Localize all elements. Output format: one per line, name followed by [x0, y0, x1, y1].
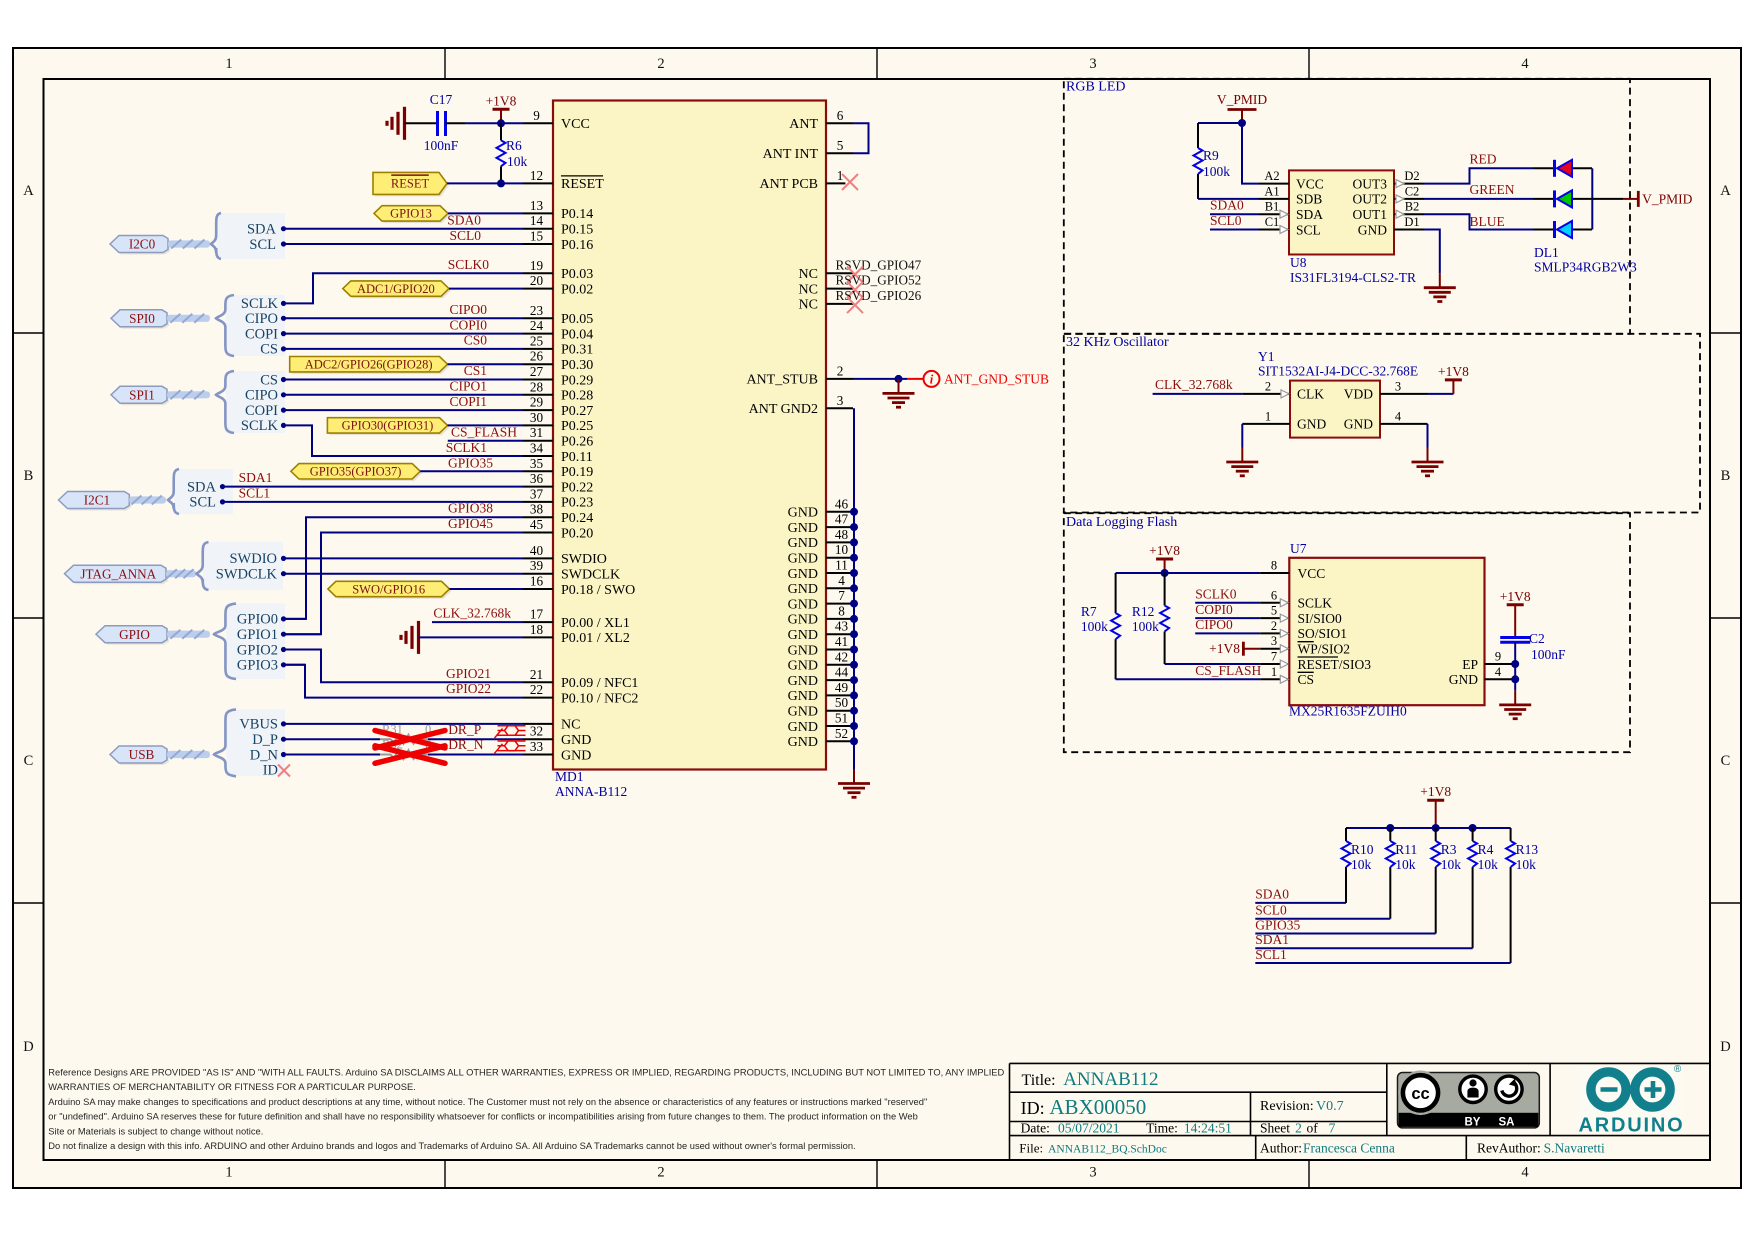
svg-text:SCL: SCL: [249, 237, 276, 253]
svg-text:SCL: SCL: [189, 495, 216, 511]
svg-text:GND: GND: [788, 506, 818, 521]
wire GPIO38 elbow to P0.24: [284, 517, 523, 619]
wire I2C1.SCL: [223, 501, 523, 503]
svg-text:D_P: D_P: [252, 732, 278, 748]
power +1V8 (U7 VCC): [1164, 559, 1166, 573]
pin 13 P0.14 (MD1 left): [523, 198, 593, 222]
svg-text:GND: GND: [788, 597, 818, 612]
svg-text:ANT GND2: ANT GND2: [749, 402, 818, 417]
pin 4 GND (Y1): [1344, 409, 1428, 431]
pin 4 GND (U7 right): [1449, 665, 1514, 687]
svg-text:35: 35: [530, 456, 544, 471]
junction node VCC/R6: [497, 119, 505, 127]
harness signal SPI1.CIPO: [245, 388, 286, 404]
wire GPIO0 stub: [284, 618, 306, 620]
wire V_PMID down to U8 VCC: [1242, 123, 1259, 184]
wire SCL0 (bank): [1255, 918, 1390, 920]
svg-text:16: 16: [530, 574, 544, 589]
power V_PMID (right, sideways): [1623, 191, 1692, 207]
no-ERC directive ANT_GND_STUB: [907, 371, 940, 387]
wire +1V8 to U7 VCC: [1116, 572, 1261, 574]
pin 17 P0.00 / XL1 (MD1 left): [523, 607, 630, 631]
svg-text:SPI1: SPI1: [129, 387, 155, 402]
svg-text:GND: GND: [788, 689, 818, 704]
svg-text:GND: GND: [788, 659, 818, 674]
svg-text:R11: R11: [1395, 842, 1417, 857]
svg-text:2: 2: [1265, 379, 1271, 393]
svg-text:SCLK1: SCLK1: [446, 440, 487, 455]
pin 2 ANT_STUB (MD1 right): [746, 363, 853, 387]
pin 15 P0.16 (MD1 left): [523, 229, 593, 253]
svg-text:21: 21: [530, 667, 543, 682]
svg-text:C: C: [1721, 753, 1731, 769]
svg-text:P0.10 / NFC2: P0.10 / NFC2: [561, 691, 638, 706]
svg-text:22: 22: [530, 682, 543, 697]
svg-text:50: 50: [835, 695, 849, 710]
pin 1 ANT PCB (MD1 right): [760, 168, 846, 192]
svg-text:GPIO21: GPIO21: [446, 666, 491, 681]
svg-text:4: 4: [1521, 1165, 1529, 1181]
svg-text:B1: B1: [1265, 200, 1280, 214]
svg-text:+1V8: +1V8: [1420, 784, 1451, 799]
wire CLK_32.768k to XL1: [432, 621, 523, 623]
svg-text:Arduino SA may make changes to: Arduino SA may make changes to specifica…: [48, 1097, 927, 1107]
svg-text:C17: C17: [430, 92, 453, 107]
svg-text:28: 28: [530, 379, 544, 394]
wire D_N: [284, 754, 380, 756]
svg-text:14: 14: [530, 213, 544, 228]
svg-text:33: 33: [530, 739, 544, 754]
svg-text:GPIO35: GPIO35: [1255, 917, 1300, 932]
svg-text:SCLK: SCLK: [1298, 596, 1333, 611]
pin 2 SO/SIO1 (U7 left): [1260, 619, 1347, 641]
svg-text:CLK_32.768k: CLK_32.768k: [1155, 377, 1233, 392]
wire GPIO30 to P0.25: [448, 424, 524, 426]
wire OUT2 to GREEN led: [1424, 198, 1533, 200]
junction U7 GND: [1511, 675, 1519, 683]
svg-text:SMLP34RGB2W3: SMLP34RGB2W3: [1534, 259, 1637, 274]
power +1V8 (U7 WP, sideways): [1209, 641, 1260, 656]
pin 14 P0.15 (MD1 left): [523, 213, 593, 237]
svg-text:MD1: MD1: [555, 769, 584, 784]
svg-text:4: 4: [838, 573, 845, 588]
pin NC NC (MD1 right): [799, 282, 853, 297]
svg-text:P0.01 / XL2: P0.01 / XL2: [561, 631, 630, 646]
svg-text:+1V8: +1V8: [1438, 364, 1469, 379]
ground (signal gnd) at C17: [403, 107, 406, 140]
wire VBUS to NC pin: [284, 723, 523, 725]
svg-text:P0.19: P0.19: [561, 465, 593, 480]
svg-text:GND: GND: [788, 613, 818, 628]
svg-text:VCC: VCC: [1298, 566, 1326, 581]
svg-text:ID:: ID:: [1021, 1098, 1045, 1118]
svg-text:SCL0: SCL0: [1255, 903, 1287, 918]
svg-text:R3: R3: [1441, 842, 1457, 857]
power V_PMID (RGB): [1217, 92, 1268, 123]
svg-text:P0.29: P0.29: [561, 373, 593, 388]
pin 23 P0.05 (MD1 left): [523, 303, 593, 327]
svg-text:cc: cc: [1411, 1085, 1429, 1103]
svg-text:6: 6: [1271, 588, 1277, 602]
svg-text:R12: R12: [1132, 604, 1155, 619]
svg-text:32: 32: [530, 724, 543, 739]
port GPIO13: [376, 208, 450, 223]
svg-text:V_PMID: V_PMID: [1642, 191, 1693, 206]
svg-text:or "undefined". Arduino SA res: or "undefined". Arduino SA reserves thes…: [48, 1112, 918, 1122]
wire COPI0 to U7: [1195, 617, 1260, 619]
harness signal SPI1.SCLK: [241, 418, 286, 434]
junction U7 EP: [1511, 660, 1519, 668]
svg-text:39: 39: [530, 558, 544, 573]
svg-text:GND: GND: [788, 735, 818, 750]
harness signal SPI0.COPI: [245, 326, 286, 342]
svg-text:7: 7: [1329, 1120, 1336, 1135]
wire GPIO3 stub: [284, 664, 305, 666]
not-fitted red cross over R32: [375, 746, 445, 764]
not-fitted red cross over R31: [375, 731, 445, 749]
svg-text:R4: R4: [1478, 842, 1494, 857]
svg-text:R7: R7: [1081, 604, 1097, 619]
pin 29 P0.27 (MD1 left): [523, 395, 593, 419]
svg-text:I2C0: I2C0: [129, 237, 156, 252]
svg-text:5: 5: [1271, 604, 1277, 618]
section box RGB LED: [1064, 79, 1630, 334]
wire gnd to XL2: [419, 636, 524, 638]
svg-text:ADC2/GPIO26(GPIO28): ADC2/GPIO26(GPIO28): [305, 358, 433, 372]
svg-text:D_N: D_N: [250, 747, 279, 763]
wire SDA1 (bank): [1255, 947, 1472, 949]
power +1V8 (Y1): [1452, 380, 1454, 394]
wire SPI0.CIPO: [284, 317, 523, 319]
svg-text:CIPO1: CIPO1: [449, 379, 487, 394]
pin 18 P0.01 / XL2 (MD1 left): [523, 622, 630, 646]
wire CIPO0 to U7: [1195, 632, 1260, 634]
harness signal SPI0.SCLK: [241, 296, 286, 312]
wire SWO/GPIO16 to P0.18: [450, 588, 524, 590]
svg-text:I2C1: I2C1: [84, 493, 110, 508]
pin B2 OUT1 (U8 right): [1353, 200, 1425, 222]
svg-text:6: 6: [837, 108, 844, 123]
net label RSVD_GPIO26: [836, 288, 922, 303]
svg-text:10k: 10k: [1395, 857, 1416, 872]
svg-text:GPIO30(GPIO31): GPIO30(GPIO31): [342, 419, 434, 433]
harness signal SPI1.CS: [260, 372, 286, 388]
pin 36 P0.22 (MD1 left): [523, 471, 593, 495]
svg-text:SDA: SDA: [247, 222, 277, 238]
wire SWDIO: [284, 557, 523, 559]
pin 33 GND (MD1 left): [523, 739, 591, 763]
svg-text:SCLK0: SCLK0: [1195, 587, 1237, 602]
svg-text:ANT_GND_STUB: ANT_GND_STUB: [944, 372, 1049, 387]
svg-text:i: i: [930, 373, 934, 387]
svg-text:BY: BY: [1465, 1117, 1481, 1129]
svg-text:2: 2: [1271, 619, 1277, 633]
pin 42 GND (MD1 right): [788, 649, 854, 673]
svg-text:1: 1: [1271, 665, 1277, 679]
svg-text:NC: NC: [799, 282, 818, 297]
wire ANT to ANT INT loop: [853, 123, 869, 153]
wire SPI1.CIPO: [284, 394, 523, 396]
svg-text:40: 40: [530, 543, 544, 558]
section box 32 KHz Oscillator: [1064, 334, 1700, 513]
junction node RESET: [497, 179, 505, 187]
svg-text:27: 27: [530, 364, 544, 379]
svg-text:GPIO22: GPIO22: [446, 681, 491, 696]
svg-text:COPI0: COPI0: [1195, 602, 1233, 617]
wire R12 to U7 RESET: [1165, 663, 1261, 665]
capacitor C2 100nF: [1500, 631, 1566, 662]
wire SPI1.SCLK elbow to P0.11: [284, 425, 523, 456]
svg-text:Title:: Title:: [1022, 1072, 1056, 1089]
svg-text:NC: NC: [799, 298, 818, 313]
svg-text:P0.05: P0.05: [561, 312, 593, 327]
svg-text:4: 4: [1395, 409, 1402, 423]
svg-text:7: 7: [838, 588, 845, 603]
svg-text:ADC1/GPIO20: ADC1/GPIO20: [357, 282, 435, 296]
svg-text:42: 42: [835, 649, 848, 664]
component U7 MX25R1635FZUIH0: [1289, 558, 1484, 705]
svg-text:P0.28: P0.28: [561, 389, 593, 404]
svg-text:U8: U8: [1290, 255, 1307, 270]
svg-text:R10: R10: [1351, 842, 1374, 857]
svg-text:C1: C1: [1265, 215, 1280, 229]
svg-text:P0.02: P0.02: [561, 282, 593, 297]
svg-text:9: 9: [533, 108, 540, 123]
svg-text:C2: C2: [1405, 184, 1420, 198]
svg-text:26: 26: [530, 349, 544, 364]
svg-text:19: 19: [530, 258, 544, 273]
wire R7/CS_FLASH to U7 CS: [1116, 678, 1261, 680]
differential pair directive DR_N: [495, 741, 526, 753]
svg-text:SDA: SDA: [187, 479, 217, 495]
svg-text:41: 41: [835, 634, 848, 649]
pin 1 GND (Y1): [1242, 409, 1326, 431]
component MD1 ANNA-B112 main IC body: [553, 101, 826, 770]
svg-text:B: B: [24, 468, 34, 484]
svg-text:RESET/SIO3: RESET/SIO3: [1298, 657, 1372, 672]
wire GPIO3 elbow to NFC2: [284, 665, 523, 698]
harness signal GPIO.GPIO1: [237, 627, 286, 643]
net label RSVD_GPIO52: [836, 273, 922, 288]
svg-text:100k: 100k: [1203, 164, 1230, 179]
resistor R7 100k: [1081, 573, 1120, 679]
power +1V8 (C2): [1514, 605, 1516, 638]
pin 3 WP/SIO2 (U7 left): [1260, 634, 1350, 656]
pin 46 GND (MD1 right): [788, 496, 854, 520]
svg-text:05/07/2021: 05/07/2021: [1058, 1120, 1120, 1135]
wire SPI0.SCLK elbow to P0.03: [284, 273, 523, 303]
svg-text:31: 31: [530, 425, 543, 440]
svg-text:NC: NC: [561, 718, 580, 733]
svg-text:5: 5: [837, 138, 844, 153]
pin 2 CLK (Y1): [1242, 379, 1324, 401]
wire C2 to EP/GND: [1514, 642, 1516, 690]
svg-text:51: 51: [835, 711, 848, 726]
harness signal SPI0.CIPO: [245, 311, 286, 327]
net label CLK_32.768k (Y1): [1155, 377, 1233, 392]
pin 16 P0.18 / SWO (MD1 left): [523, 574, 635, 598]
harness signal GPIO.GPIO3: [237, 658, 286, 674]
junction U7 VCC: [1161, 569, 1169, 577]
wire LED anode bus: [1591, 168, 1593, 229]
svg-text:CS: CS: [1298, 672, 1315, 687]
wire ANT_STUB: [853, 378, 907, 380]
pin 7 RESET/SIO3 (U7 left): [1260, 650, 1371, 672]
resistor R12 100k: [1132, 573, 1169, 664]
pin 27 P0.29 (MD1 left): [523, 364, 593, 388]
svg-text:GPIO3: GPIO3: [237, 658, 278, 674]
svg-text:29: 29: [530, 395, 544, 410]
pin 49 GND (MD1 right): [788, 680, 854, 704]
port GPIO35(GPIO37): [293, 466, 422, 481]
resistor R6 10k: [497, 123, 528, 183]
pin 44 GND (MD1 right): [788, 665, 854, 689]
svg-text:17: 17: [530, 607, 544, 622]
svg-text:OUT2: OUT2: [1353, 192, 1388, 207]
wire SPI0.CS: [284, 348, 523, 350]
svg-text:3: 3: [837, 393, 844, 408]
component U8 IS31FL3194-CLS2-TR: [1289, 170, 1394, 254]
svg-text:GND: GND: [561, 748, 591, 763]
svg-text:GND: GND: [788, 705, 818, 720]
svg-text:Sheet: Sheet: [1260, 1120, 1290, 1135]
junction R3 top: [1432, 824, 1440, 832]
pin NC NC (MD1 right): [799, 298, 853, 313]
svg-text:CS0: CS0: [464, 333, 488, 348]
svg-text:P0.09 / NFC1: P0.09 / NFC1: [561, 676, 638, 691]
no-connect cross at ANT PCB: [842, 174, 858, 190]
svg-text:P0.00 / XL1: P0.00 / XL1: [561, 616, 630, 631]
wire D_P: [284, 738, 380, 740]
resistor R13 10k: [1506, 828, 1538, 880]
pin 37 P0.23 (MD1 left): [523, 486, 593, 510]
svg-text:Date:: Date:: [1021, 1120, 1050, 1135]
svg-text:P0.14: P0.14: [561, 207, 593, 222]
svg-text:3: 3: [1395, 379, 1401, 393]
resistor R11 10k: [1386, 828, 1418, 880]
svg-text:GPIO: GPIO: [119, 627, 150, 642]
svg-text:23: 23: [530, 303, 544, 318]
ground at GND bus: [853, 769, 855, 784]
wire R3 lead: [1435, 880, 1437, 934]
no-connect cross at ID: [278, 765, 290, 777]
svg-text:SCLK: SCLK: [241, 296, 279, 312]
harness signal I2C0.SCL: [249, 237, 286, 253]
svg-text:P0.30: P0.30: [561, 358, 593, 373]
svg-text:GND: GND: [1297, 417, 1326, 432]
pin 26 P0.30 (MD1 left): [523, 349, 593, 373]
svg-text:ANT PCB: ANT PCB: [760, 177, 818, 192]
pin B1 SDA (U8 left): [1259, 200, 1323, 222]
svg-text:P0.26: P0.26: [561, 435, 593, 450]
wire GPIO2 elbow to NFC1: [284, 650, 523, 683]
svg-text:NC: NC: [799, 267, 818, 282]
svg-text:File:: File:: [1019, 1141, 1043, 1156]
svg-text:48: 48: [835, 527, 849, 542]
wire I2C1.SDA: [223, 486, 523, 488]
svg-text:20: 20: [530, 273, 544, 288]
pin 7 GND (MD1 right): [788, 588, 854, 612]
no-connect cross NC3: [847, 297, 863, 313]
svg-text:D1: D1: [1404, 215, 1419, 229]
CC BY-SA badge: [1398, 1071, 1540, 1129]
harness connector I2C1: [59, 469, 234, 514]
pin C2 OUT2 (U8 right): [1353, 184, 1425, 206]
wire GPIO2 stub: [284, 649, 321, 651]
pin A2 VCC (U8 left): [1259, 169, 1324, 191]
svg-text:V0.7: V0.7: [1316, 1099, 1344, 1114]
svg-text:COPI: COPI: [245, 326, 278, 342]
pin 28 P0.28 (MD1 left): [523, 379, 593, 403]
svg-text:P0.31: P0.31: [561, 343, 593, 358]
svg-text:SDB: SDB: [1296, 192, 1322, 207]
wire GPIO35 (bank): [1255, 933, 1435, 935]
pin D2 OUT3 (U8 right): [1353, 169, 1425, 191]
wire GPIO45 elbow to P0.20: [284, 533, 523, 635]
svg-text:52: 52: [835, 726, 848, 741]
svg-text:RED: RED: [1470, 152, 1497, 167]
harness signal SPI0.CS: [260, 342, 286, 358]
harness connector JTAG_ANNA: [65, 542, 284, 590]
harness signal I2C0.SDA: [247, 222, 286, 238]
svg-text:2: 2: [1295, 1120, 1302, 1135]
svg-text:VCC: VCC: [1296, 176, 1324, 191]
svg-text:SIT1532AI-J4-DCC-32.768E: SIT1532AI-J4-DCC-32.768E: [1258, 364, 1418, 379]
svg-text:ANNAB112_BQ.SchDoc: ANNAB112_BQ.SchDoc: [1048, 1144, 1167, 1156]
svg-text:3: 3: [1089, 1165, 1096, 1181]
pin 4 GND (MD1 right): [788, 573, 854, 597]
svg-text:SWDIO: SWDIO: [229, 551, 277, 567]
power +1V8 at VCC: [500, 109, 502, 123]
svg-text:P0.04: P0.04: [561, 327, 593, 342]
pin 9 VCC (MD1 left): [523, 108, 590, 132]
svg-text:GPIO1: GPIO1: [237, 627, 278, 643]
pin 50 GND (MD1 right): [788, 695, 854, 719]
svg-text:CLK_32.768k: CLK_32.768k: [433, 606, 511, 621]
svg-text:C: C: [24, 753, 34, 769]
svg-text:D2: D2: [1404, 169, 1419, 183]
svg-text:P0.18 / SWO: P0.18 / SWO: [561, 583, 635, 598]
svg-text:Author:: Author:: [1260, 1141, 1302, 1156]
pin 24 P0.04 (MD1 left): [523, 318, 593, 342]
port GPIO30(GPIO31): [329, 420, 449, 435]
svg-text:OUT3: OUT3: [1353, 176, 1388, 191]
svg-text:ABX00050: ABX00050: [1049, 1095, 1146, 1119]
svg-text:ANNA-B112: ANNA-B112: [555, 784, 627, 799]
harness connector SPI0: [111, 295, 285, 356]
wire OUT1 to BLUE led: [1424, 214, 1533, 229]
wire SPI1.CS: [284, 379, 523, 381]
wire SDA0 (bank): [1255, 902, 1346, 904]
ground U8: [1439, 273, 1441, 288]
svg-text:10k: 10k: [1516, 857, 1537, 872]
resistor R4 10k: [1468, 828, 1498, 880]
svg-text:7: 7: [1271, 650, 1277, 664]
harness connector I2C0: [110, 213, 285, 259]
wire OUT3 to RED led: [1424, 168, 1533, 183]
svg-text:45: 45: [530, 517, 544, 532]
svg-text:GREEN: GREEN: [1470, 182, 1515, 197]
svg-text:+1V8: +1V8: [1209, 641, 1240, 656]
svg-text:SCL: SCL: [1296, 222, 1321, 237]
svg-text:GND: GND: [788, 582, 818, 597]
svg-text:RGB LED: RGB LED: [1066, 80, 1126, 95]
svg-text:P0.11: P0.11: [561, 450, 593, 465]
svg-text:GND: GND: [788, 720, 818, 735]
svg-text:2: 2: [837, 363, 844, 378]
pin 31 P0.26 (MD1 left): [523, 425, 593, 449]
svg-text:D: D: [23, 1039, 33, 1055]
